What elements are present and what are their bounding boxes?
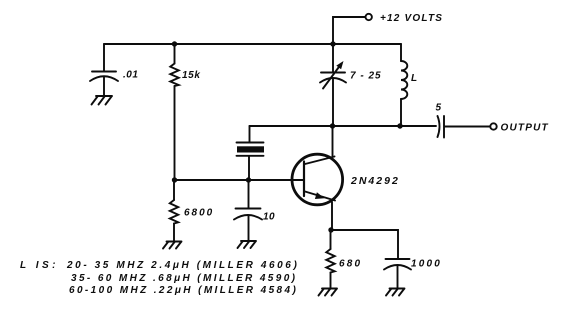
label coil table line 1 bbox=[66, 260, 299, 271]
inductor L bbox=[401, 61, 407, 99]
label 10 bbox=[263, 212, 275, 223]
capacitor .01 bbox=[90, 72, 118, 96]
svg-text:35- 60 MHZ .68μH (MILLER 4590): 35- 60 MHZ .68μH (MILLER 4590) bbox=[71, 273, 297, 284]
svg-text:680: 680 bbox=[339, 259, 362, 270]
node rail/collector junction bbox=[330, 41, 335, 46]
wire top supply rail bbox=[104, 43, 401, 45]
svg-text:1000: 1000 bbox=[411, 259, 442, 270]
label 2N4292 bbox=[350, 175, 400, 187]
node crystal-cap corner bbox=[249, 126, 251, 142]
wire output line left bbox=[250, 125, 437, 127]
label 15k bbox=[182, 70, 201, 81]
node inductor line junction bbox=[397, 123, 402, 128]
ground (under 680) bbox=[319, 289, 338, 296]
wire 6800 top lead bbox=[173, 180, 175, 200]
capacitor 1000 bbox=[384, 259, 411, 288]
wire cap .01 top lead bbox=[103, 44, 105, 71]
svg-text:20- 35 MHZ 2.4μH (MILLER 4606): 20- 35 MHZ 2.4μH (MILLER 4606) bbox=[66, 260, 299, 271]
terminal OUTPUT bbox=[490, 123, 496, 129]
wire 680 top lead bbox=[330, 230, 332, 249]
node base/15k junction bbox=[172, 177, 177, 182]
capacitor 5 (series output) bbox=[438, 116, 445, 138]
label coil table line 2 bbox=[71, 273, 297, 284]
svg-text:5: 5 bbox=[436, 103, 442, 114]
ground (under .01) bbox=[92, 96, 113, 105]
svg-text:+12 VOLTS: +12 VOLTS bbox=[380, 13, 443, 24]
svg-text:15k: 15k bbox=[182, 70, 201, 81]
wire collector lead bbox=[332, 126, 334, 156]
svg-text:60-100 MHZ .22μH (MILLER 4584): 60-100 MHZ .22μH (MILLER 4584) bbox=[69, 285, 298, 296]
wire 15k top lead bbox=[174, 44, 176, 64]
resistor R 680 bbox=[326, 249, 334, 273]
wire variable cap top lead bbox=[332, 44, 334, 72]
svg-text:6800: 6800 bbox=[184, 208, 214, 219]
label 5 bbox=[436, 103, 442, 114]
ground (under cap 10) bbox=[238, 241, 257, 248]
label .01 bbox=[123, 70, 138, 81]
wire inductor top lead bbox=[400, 44, 402, 61]
label +12 VOLTS bbox=[380, 13, 443, 24]
wire 6800 bottom lead bbox=[173, 224, 175, 242]
node rail/15k junction bbox=[172, 41, 177, 46]
capacitor 10 bbox=[234, 209, 262, 241]
node base/cap10 junction bbox=[246, 177, 251, 182]
label L IS: bbox=[20, 260, 59, 271]
label 7 - 25 bbox=[350, 71, 382, 82]
svg-text:L: L bbox=[411, 73, 417, 84]
node collector line junction bbox=[330, 123, 335, 128]
svg-text:7 - 25: 7 - 25 bbox=[350, 71, 382, 82]
wire emitter to cap 1000 bbox=[331, 230, 398, 259]
svg-text:2N4292: 2N4292 bbox=[350, 175, 400, 187]
label coil table line 3 bbox=[69, 285, 298, 296]
wire +12V tap bbox=[333, 17, 365, 44]
label 6800 bbox=[184, 208, 214, 219]
transistor Q1 2N4292 bbox=[292, 154, 343, 205]
label L bbox=[411, 73, 417, 84]
svg-text:.01: .01 bbox=[123, 70, 138, 81]
wire cap 10 top lead bbox=[248, 180, 250, 208]
label 680 bbox=[339, 259, 362, 270]
label 1000 bbox=[411, 259, 442, 270]
wire 15k bottom to base line bbox=[174, 86, 176, 180]
variable capacitor 7-25 bbox=[320, 61, 346, 89]
wire inductor bottom lead bbox=[400, 99, 402, 126]
svg-text:10: 10 bbox=[263, 212, 275, 223]
ground (under 1000) bbox=[386, 289, 405, 296]
label OUTPUT bbox=[501, 123, 549, 134]
resistor R 6800 bbox=[170, 200, 178, 224]
wire emitter lead bbox=[331, 202, 333, 230]
wire 680 bottom lead bbox=[330, 273, 332, 289]
svg-text:L IS:: L IS: bbox=[20, 260, 59, 271]
ground (under 6800) bbox=[163, 242, 182, 249]
capacitor feedback (thick plates) bbox=[237, 143, 265, 181]
resistor R 15k bbox=[170, 64, 178, 87]
wire variable cap bottom to collector node bbox=[332, 79, 334, 127]
wire base line bbox=[175, 179, 304, 181]
node emitter junction bbox=[328, 227, 333, 232]
svg-text:OUTPUT: OUTPUT bbox=[501, 123, 549, 134]
wire output line right bbox=[445, 126, 491, 128]
terminal +12 VOLTS bbox=[366, 14, 372, 20]
